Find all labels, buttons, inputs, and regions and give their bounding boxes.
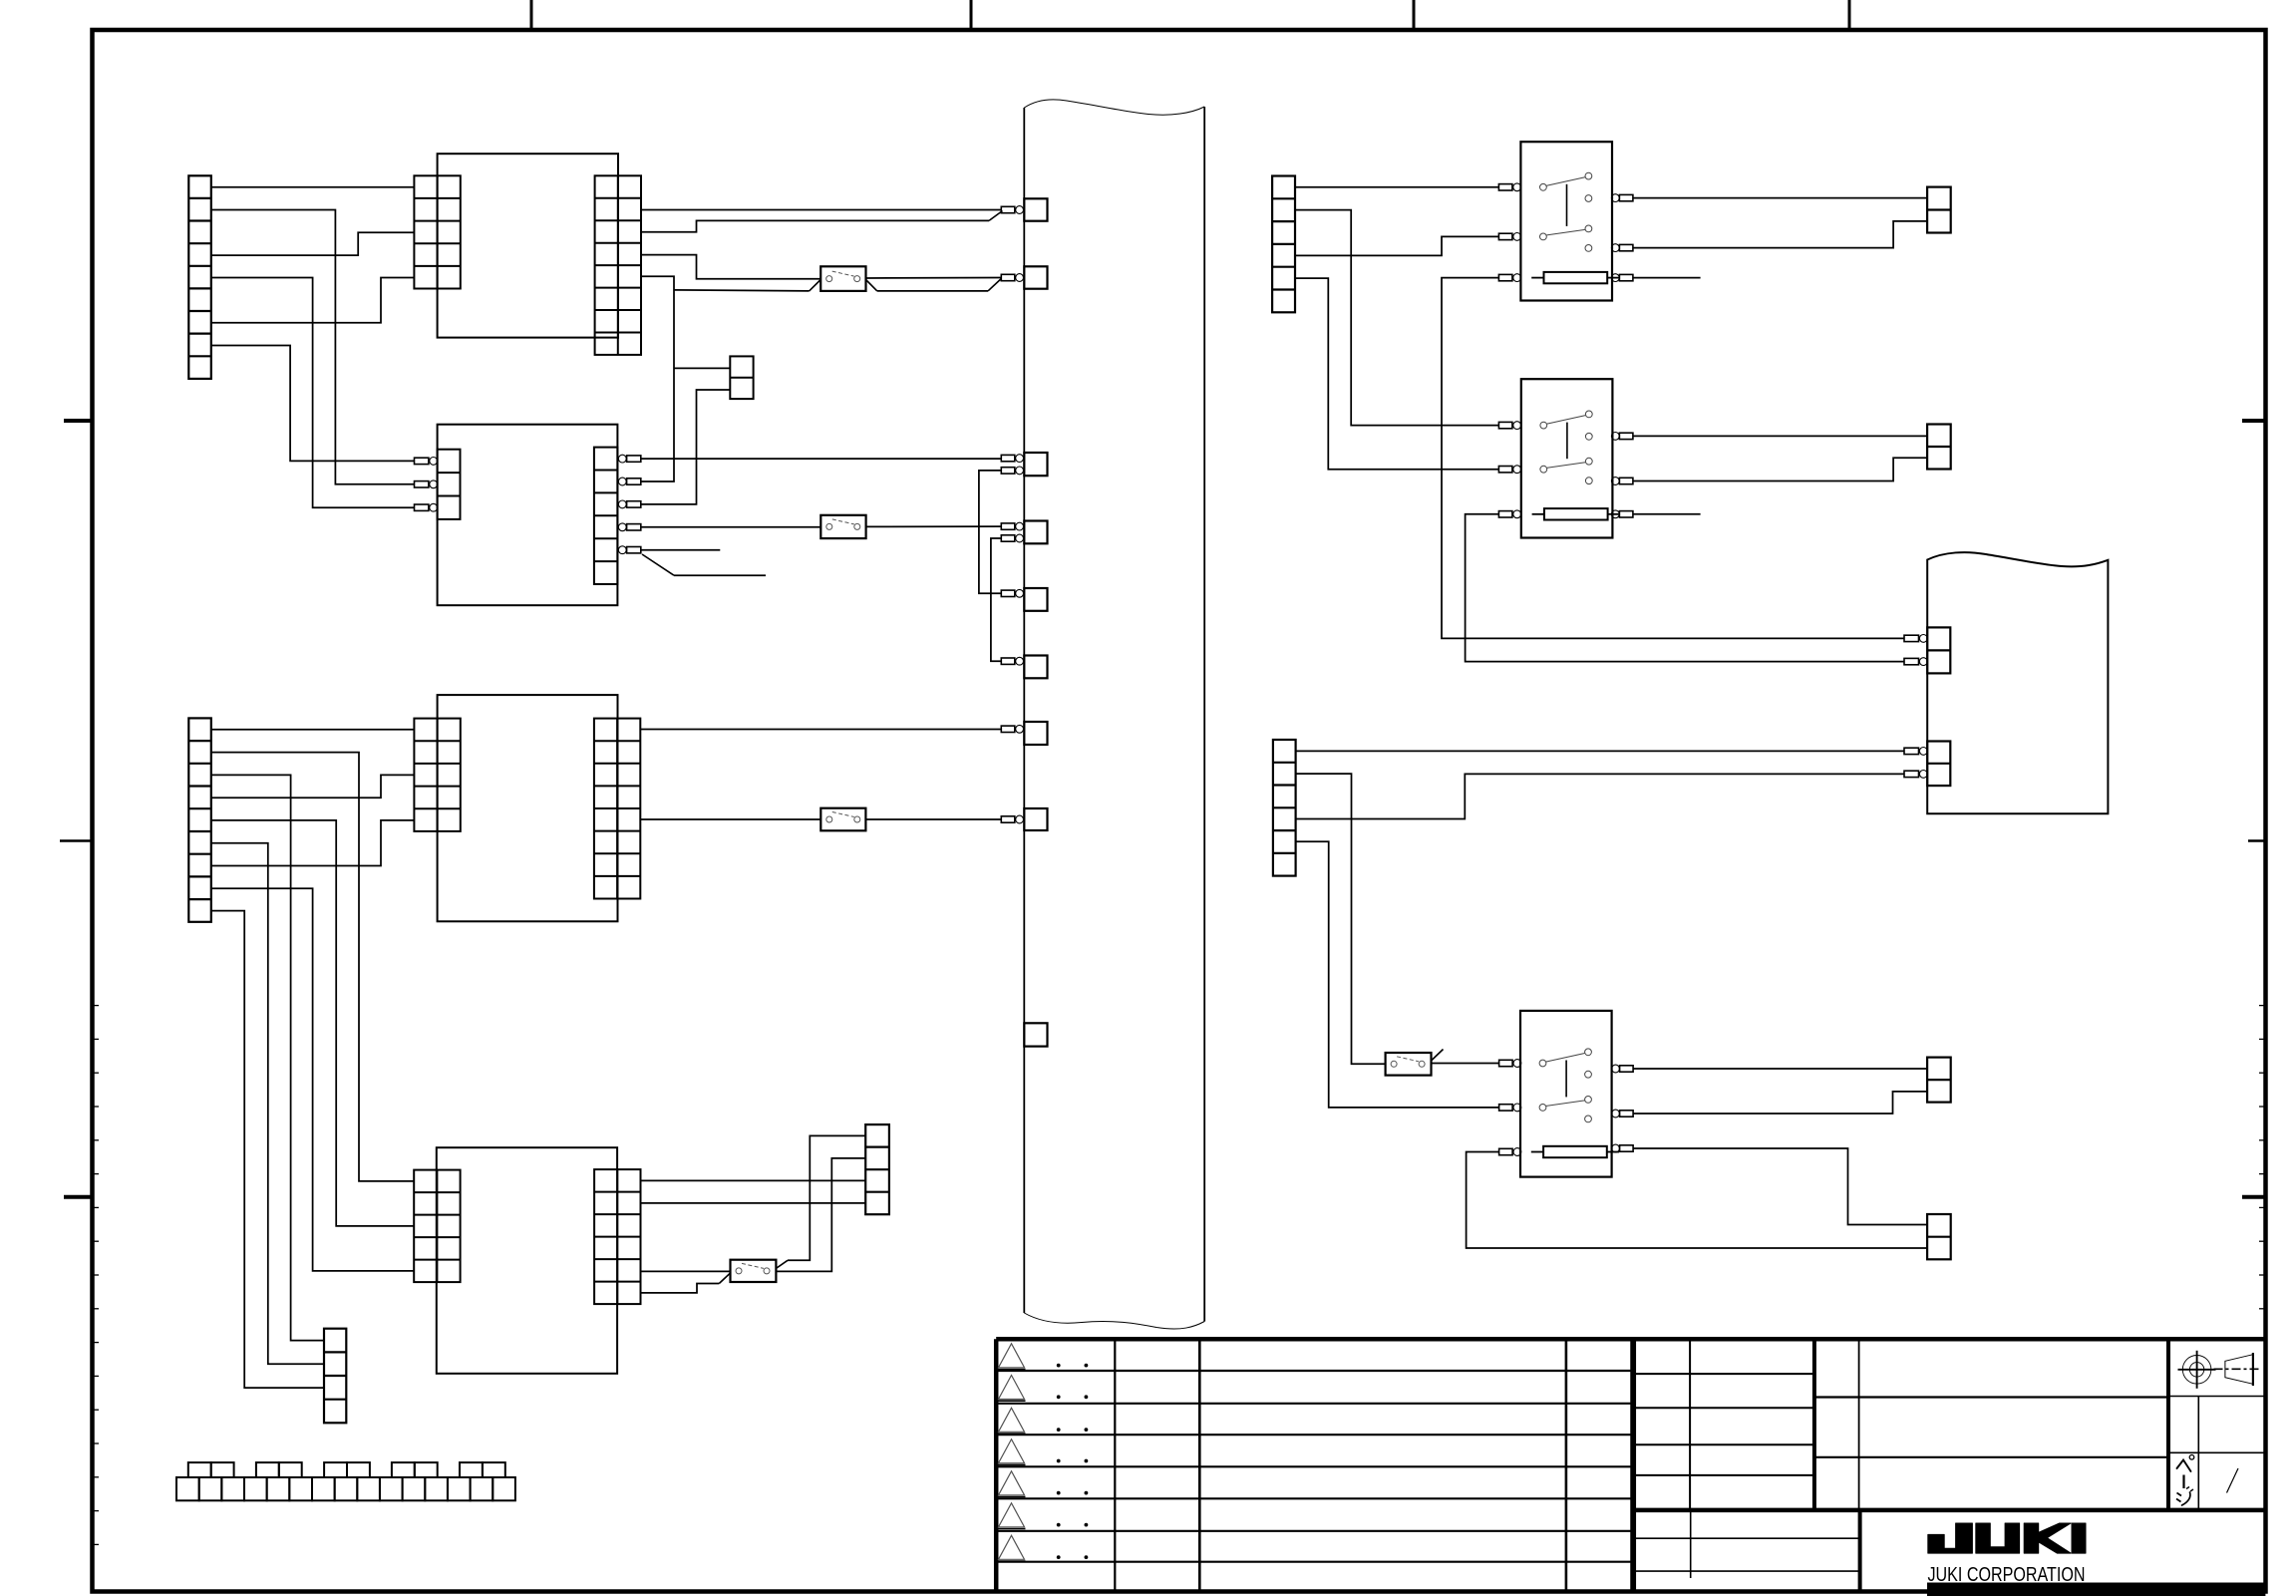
switch SW5 xyxy=(1386,1053,1432,1076)
title block approval grid xyxy=(1634,1339,1814,1510)
wire RY3-X to CN21 pin1 xyxy=(1633,1068,1927,1070)
wire CN7-5 down to unit4 row3 xyxy=(211,820,414,1226)
wire CN1-5 down to unit2 row3 xyxy=(211,278,415,508)
wire U3 r1 to bus pad P7 xyxy=(640,729,1001,731)
connector CN17 (2-pin) xyxy=(1927,425,1951,470)
wire CN15-4 to RY1-B xyxy=(1295,236,1498,255)
revision table row lines xyxy=(996,1371,1632,1562)
terminal lug RB upper pin2 xyxy=(1904,658,1919,664)
wire CN1-1 to CN2 row1 xyxy=(211,186,415,188)
connector ladder CN10 (U4 left, 2x5) xyxy=(414,1170,460,1283)
terminal lug RY2-A xyxy=(1498,422,1512,428)
terminal lug RY3-B xyxy=(1499,1105,1513,1111)
wire CN7-8 down to unit4 row5 xyxy=(211,888,414,1271)
wire CN15-1 to RY1-A xyxy=(1295,186,1498,188)
title block drawing-number grid xyxy=(1814,1339,2168,1510)
terminal lug RY1-A xyxy=(1498,184,1512,190)
wire U4 r6 jog into SW4 xyxy=(640,1284,719,1293)
right border ruler ticks xyxy=(2259,1006,2265,1309)
wire U3 r5 to switch SW3 xyxy=(640,818,820,820)
wire CN7-7 to CN8 row5 xyxy=(211,820,415,866)
connector ladder CN2 (U1 left, 2x5) xyxy=(414,175,460,288)
wire U4 r5 into switch SW4 xyxy=(640,1270,731,1272)
revision table column lines xyxy=(1115,1339,1566,1591)
terminal lug RY2-X xyxy=(1611,433,1633,441)
terminal lug P3 upper xyxy=(1001,455,1015,461)
wire U1 net D (lower pair) to SW1 xyxy=(674,290,810,291)
left border ruler ticks xyxy=(93,1006,100,1545)
projection symbol cone xyxy=(2214,1353,2261,1386)
connector CN22 (2-pin) xyxy=(1927,1214,1951,1259)
wire SW1 lower out diagonal xyxy=(866,280,877,291)
wire U1 net C to switch SW1 xyxy=(641,255,820,279)
title block bottom black bar xyxy=(1927,1583,2265,1596)
wire CN7-6 down to CN12 pin2 xyxy=(211,843,324,1365)
wire CN15-2 down to RY2-A xyxy=(1295,210,1498,426)
revision mark triangles xyxy=(998,1344,1026,1561)
terminal lug P6 xyxy=(1001,658,1015,664)
wire RY1-C down to right box pad xyxy=(1442,278,1904,639)
wire SW4 right out up to CN13 pin2 xyxy=(776,1158,865,1272)
wire bracket P4 lower to P6 xyxy=(991,538,1001,661)
control box U1 xyxy=(438,154,618,337)
bus connector pad P8 xyxy=(1024,808,1047,830)
cable bundle right edge xyxy=(1203,107,1205,1322)
wire RY3-C loop to CN22 pin2 xyxy=(1467,1152,1928,1249)
terminal lug RY1-C xyxy=(1498,274,1512,280)
connector ladder CN11 (U4 right, 2x6) xyxy=(594,1169,640,1304)
page number slash xyxy=(2227,1468,2239,1493)
wire CN1-2 down to unit2 row2 xyxy=(211,210,415,484)
wire lower diagonal to lug P2 xyxy=(988,279,1001,291)
connector CN7 (9-pin, unit3 input) xyxy=(188,718,211,921)
wire CN7-4 to CN8 row3 xyxy=(211,775,415,798)
wire RY2-C down to right box pad xyxy=(1466,514,1904,662)
wire CN3 row5 down to CN4 and unit2 xyxy=(641,276,674,481)
terminal lug RY1-Y xyxy=(1611,244,1633,252)
left border tick lower xyxy=(64,1195,92,1199)
wire U2 r5 spare stub xyxy=(641,549,721,551)
wire RY1-X to CN16 pin1 xyxy=(1633,197,1927,199)
terminal lug U2 right pin2 xyxy=(618,478,640,485)
wire SW1 out to bus pad P2 xyxy=(866,277,1002,280)
connector CN18 (2-pin on RB) xyxy=(1927,627,1950,673)
bus connector pad P7 xyxy=(1024,722,1047,745)
top edge fold tick 2 xyxy=(970,0,973,30)
title block bottom-left grid xyxy=(1634,1510,1860,1578)
device box RB (torn top) xyxy=(1927,552,2108,813)
connector CN1 (9-pin, unit1 input) xyxy=(188,175,211,379)
connector strip CN14 upper key row xyxy=(188,1462,505,1477)
right border tick upper xyxy=(2242,419,2265,423)
top edge fold tick 4 xyxy=(1848,0,1851,30)
bus connector pad P9 (unused) xyxy=(1024,1023,1047,1046)
terminal lug RY2-B xyxy=(1498,467,1512,473)
spare wire diagonal xyxy=(642,554,674,575)
left border tick middle xyxy=(60,839,92,842)
relay RY2 xyxy=(1521,379,1613,537)
right border tick lower xyxy=(2242,1195,2265,1199)
wire CN7-3 down to CN12 pin1 xyxy=(211,775,324,1340)
terminal lug P3 lower xyxy=(1001,468,1015,474)
wire CN20-2 down to SW5 xyxy=(1296,774,1386,1064)
terminal lug U2 right pin3 xyxy=(618,500,640,508)
terminal lug RY1-B xyxy=(1498,233,1512,239)
relay RY3 xyxy=(1520,1011,1612,1177)
connector strip CN14 lower row (15 cells) xyxy=(176,1477,515,1500)
wire CN1-8 down to unit2 row1 xyxy=(211,346,415,462)
terminal lug RB lower pin2 xyxy=(1904,771,1919,777)
terminal lug U2 left pin1 xyxy=(415,458,429,464)
wire RY2-Z stub xyxy=(1633,513,1701,515)
wire CN1-7 to CN2 row5 xyxy=(211,278,415,323)
projection symbol circle xyxy=(2178,1351,2216,1389)
wire RY3-Z to CN22 pin1 xyxy=(1633,1148,1927,1225)
cable bundle left edge xyxy=(1023,108,1025,1313)
wire CN15-5 down to RY2-B xyxy=(1295,278,1498,470)
terminal lug U2 right pin1 xyxy=(618,455,640,463)
switch SW2 xyxy=(820,515,865,538)
wire RY3-Y to CN21 pin2 xyxy=(1633,1092,1927,1114)
wire bracket P3 lower to P5 xyxy=(979,471,1001,593)
wire CN7-2 down to unit4 row1 xyxy=(211,753,414,1181)
connector CN12 (4-pin) xyxy=(324,1329,346,1424)
bus connector pad P5 xyxy=(1024,588,1047,611)
terminal lug P4 lower xyxy=(1001,535,1015,541)
right border tick middle xyxy=(2248,839,2265,842)
JUKI logo xyxy=(1928,1523,2086,1553)
page label (peji) xyxy=(2176,1455,2194,1506)
terminal lug RY2-C xyxy=(1498,511,1512,517)
top edge fold tick 3 xyxy=(1413,0,1416,30)
control box U4 xyxy=(437,1147,617,1374)
revision date dots xyxy=(1057,1364,1089,1559)
wire U1 net B join xyxy=(641,220,989,231)
wire SW3 out to bus pad P8 xyxy=(865,818,1001,820)
terminal lug U2 left pin2 xyxy=(415,481,429,487)
terminal lug P4 upper xyxy=(1001,523,1015,529)
connector CN20 (6-pin) xyxy=(1273,740,1296,876)
cable bundle torn bottom edge xyxy=(1024,1313,1204,1329)
connector CN16 (2-pin) xyxy=(1927,187,1951,233)
connector ladder CN8 (U3 left, 2x5) xyxy=(414,719,460,831)
wire RY1-Z stub xyxy=(1633,277,1701,279)
terminal lug U2 right pin4 xyxy=(618,523,640,531)
terminal lug RB lower pin1 xyxy=(1904,748,1919,754)
wire branch to CN4 pin1 xyxy=(674,367,730,369)
bus connector pad P1 (unit1 net A) xyxy=(1024,198,1047,220)
title block outer thick lines xyxy=(1633,1339,2266,1591)
title block page cell grid xyxy=(2168,1397,2265,1510)
wire SW5 out to RY3-A xyxy=(1432,1063,1499,1065)
connector ladder CN5 (U2 left, 3-pin) xyxy=(438,450,461,519)
wire RY2-Y to CN17 pin2 xyxy=(1633,458,1927,480)
bus connector pad P3 xyxy=(1024,453,1047,476)
wire CN20-1 to RB lower pin1 xyxy=(1296,750,1904,752)
control box U2 xyxy=(438,425,618,606)
terminal lug net C/D xyxy=(1001,274,1015,280)
bus connector pad P6 xyxy=(1024,656,1047,679)
wire SW2 out to bus pad P4 xyxy=(866,525,1002,527)
terminal lug RY2-Z xyxy=(1611,510,1633,518)
terminal lug RY3-Z xyxy=(1612,1144,1634,1152)
terminal lug P8 xyxy=(1001,816,1015,822)
wire U2 r1 to bus pad P3 xyxy=(641,458,1002,460)
wire SW1 lower out xyxy=(877,290,988,292)
control box U3 xyxy=(438,695,618,921)
terminal lug RB upper pin1 xyxy=(1904,635,1919,641)
terminal lug U2 left pin3 xyxy=(415,504,429,510)
wire CN20-4 to RB lower pin2 xyxy=(1296,774,1904,818)
connector CN4 (2-pin) xyxy=(730,356,753,399)
connector CN13 (4-pin) xyxy=(865,1124,889,1214)
wire r6 diagonal into SW4 xyxy=(719,1273,730,1284)
terminal lug RY3-C xyxy=(1499,1148,1513,1154)
wire U4 r1 to CN13 pin3 xyxy=(640,1179,865,1181)
wire SW4 top path xyxy=(788,1135,865,1260)
connector ladder CN3 (U1 right, 2x8) xyxy=(595,175,641,355)
wire U1 net A to bus pad P1 xyxy=(641,209,1001,211)
terminal lug P5 xyxy=(1001,590,1015,596)
relay RY1 xyxy=(1520,142,1612,300)
terminal lug RY1-Z xyxy=(1611,274,1633,282)
terminal lug RY3-Y xyxy=(1612,1110,1634,1117)
wire CN20-5 down to RY3-B xyxy=(1296,841,1499,1108)
wire CN7-1 to CN8 row1 xyxy=(211,729,415,731)
terminal lug P7 xyxy=(1001,726,1015,732)
bus connector pad P4 xyxy=(1024,521,1047,544)
wire U4 r2 to CN13 pin4 xyxy=(640,1202,865,1204)
bus connector pad P2 (unit1 net B) xyxy=(1024,266,1047,288)
terminal lug RY3-X xyxy=(1612,1065,1634,1073)
terminal lug U2 right pin5 xyxy=(618,546,640,554)
switch SW1 xyxy=(820,266,865,291)
switch SW3 xyxy=(820,808,865,831)
wire CN4 pin2 down to unit2 row3 lug xyxy=(641,390,731,504)
top edge fold tick 1 xyxy=(530,0,533,30)
connector ladder CN9 (U3 right, 2x8) xyxy=(594,719,640,899)
switch SW4 xyxy=(731,1260,777,1282)
terminal lug RY3-A xyxy=(1499,1060,1513,1066)
wire CN7-9 down to CN12 pin3 xyxy=(211,911,324,1389)
wire CN1-4 to CN2 row3 xyxy=(211,232,415,255)
wire SW5 out diagonal xyxy=(1432,1050,1444,1062)
spare wire lower stub xyxy=(674,574,766,576)
wire U2 r4 to switch SW2 xyxy=(641,526,821,528)
connector CN21 (2-pin) xyxy=(1927,1058,1951,1103)
terminal lug net A xyxy=(1001,206,1015,212)
wire SW4 out up to CN13 pin1 xyxy=(777,1260,788,1268)
left border tick upper xyxy=(64,419,92,423)
connector CN19 (2-pin on RB) xyxy=(1927,742,1950,787)
wire RY2-X to CN17 pin1 xyxy=(1633,435,1927,437)
connector CN15 (6-pin) xyxy=(1272,176,1295,313)
cable bundle torn top edge xyxy=(1024,100,1204,115)
revision table frame xyxy=(996,1339,1632,1591)
connector ladder CN6 (U2 right, 6-pin) xyxy=(594,448,618,584)
wire RY1-Y to CN16 pin2 xyxy=(1633,221,1927,248)
terminal lug RY1-X xyxy=(1611,194,1633,202)
wire net D diagonal into SW1 xyxy=(810,280,821,291)
wire net B diagonal to lug xyxy=(989,211,1003,221)
terminal lug RY2-Y xyxy=(1611,478,1633,485)
